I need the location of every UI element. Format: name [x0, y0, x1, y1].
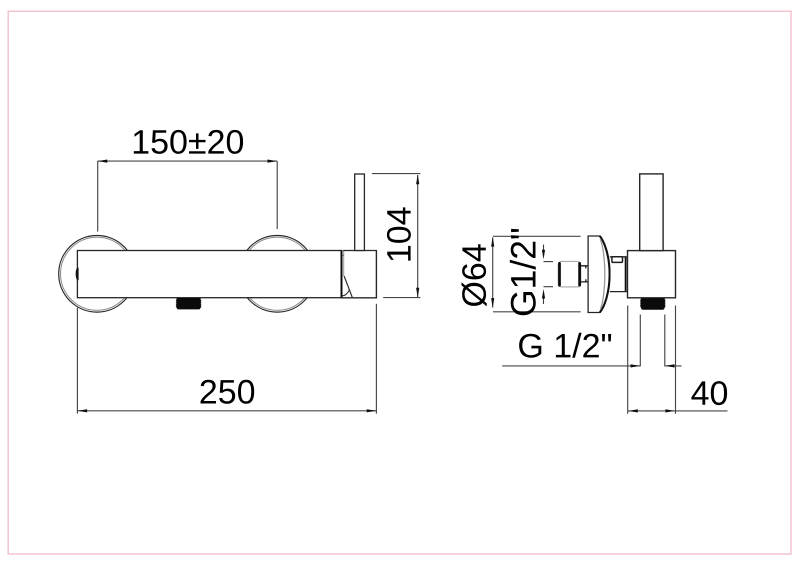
dim 150±20 text: [134, 130, 243, 154]
cartridge block (front): [341, 251, 377, 298]
valve block (side): [628, 251, 676, 298]
wall flange (side) body: [588, 236, 610, 313]
G 1/2" text: [519, 333, 611, 358]
inlet nipple silhouette on bar left edge: [76, 268, 77, 279]
G 1/2" outlet left extension line: [639, 315, 641, 367]
dim 250 text: [201, 380, 255, 404]
lever handle stick (front): [355, 174, 365, 251]
dim 104 line: [417, 175, 419, 297]
dim 150±20 right extension line: [276, 161, 278, 229]
dim 40 line: [628, 410, 728, 412]
nipple shank bottom line: [581, 279, 588, 282]
lever silhouette diagonal (front): [344, 276, 352, 298]
dim 40 left extension line: [627, 306, 629, 414]
dim 104 bottom extension line: [383, 297, 420, 299]
dim 150±20 left arrowhead: [98, 160, 108, 163]
shower hose outlet thread (front, black): [176, 298, 202, 309]
dim G1/2" inlet bottom tick: [544, 286, 554, 288]
dim 250 left extension line: [76, 308, 78, 414]
dim 40 right arrowhead: [665, 409, 675, 412]
G 1/2" right segment arrowhead (pointing left): [665, 364, 675, 367]
G 1/2" outlet right extension line: [664, 315, 666, 367]
temperature limiter tab (side): [612, 257, 623, 263]
dim Ø64 top arrowhead: [491, 237, 494, 247]
dim 104 top extension line: [372, 173, 421, 175]
G 1/2" leader line left segment: [502, 365, 640, 367]
lever base arc (front): [342, 290, 350, 296]
dim 250 left arrowhead: [78, 409, 88, 412]
dim 150±20 right arrowhead: [268, 160, 278, 163]
dim Ø64 top extension line: [493, 235, 581, 237]
inlet nipple thick right edge: [578, 263, 581, 285]
dim 250 right arrowhead: [367, 409, 377, 412]
outlet thread (side, black): [640, 298, 666, 310]
dim Ø64 bottom extension line: [493, 311, 581, 313]
dim G1/2" inlet top arrow: [542, 245, 545, 260]
wall flange (side) inner rim line: [600, 239, 605, 310]
dim Ø64 text (rotated): [462, 244, 487, 306]
dim Ø64 bottom arrowhead: [491, 298, 494, 308]
cartridge stem (side): [610, 257, 627, 292]
lever handle (side): [640, 174, 663, 251]
dim 104 bottom arrowhead: [416, 288, 419, 298]
G 1/2" leader right arrowhead (pointing right): [631, 364, 641, 367]
dim G1/2" inlet top tick: [544, 261, 554, 263]
dim 150±20 left extension line: [97, 161, 99, 232]
wall flange disc left (outer rim): [59, 235, 136, 312]
wall flange (side) dome edge (thick): [600, 236, 610, 313]
dim 104 text (rotated): [387, 207, 411, 260]
wall flange disc left (inner rim): [61, 237, 134, 310]
dim 250 line: [77, 410, 376, 412]
G 1/2" leader line right segment: [665, 365, 682, 367]
inlet nipple body: [558, 261, 581, 287]
dim 40 text: [691, 381, 727, 405]
nipple shank top line: [581, 266, 588, 269]
dim Ø64 line: [492, 237, 494, 307]
dim 40 left arrowhead: [628, 409, 638, 412]
dim 40 right extension line: [675, 306, 677, 414]
wall flange disc right (inner rim): [241, 237, 314, 310]
dim 104 top arrowhead: [416, 175, 419, 185]
dim 250 right extension line: [375, 304, 377, 414]
wall flange disc right (outer rim): [239, 235, 316, 312]
dim G1/2" inlet bottom arrow: [542, 289, 545, 304]
lever tick at block top-left: [342, 254, 344, 256]
dim 150±20 line: [98, 160, 278, 162]
mixer body bar: [77, 250, 341, 298]
inlet nipple thick left edge: [558, 263, 561, 285]
dim G1/2" inlet text (rotated): [510, 229, 536, 315]
